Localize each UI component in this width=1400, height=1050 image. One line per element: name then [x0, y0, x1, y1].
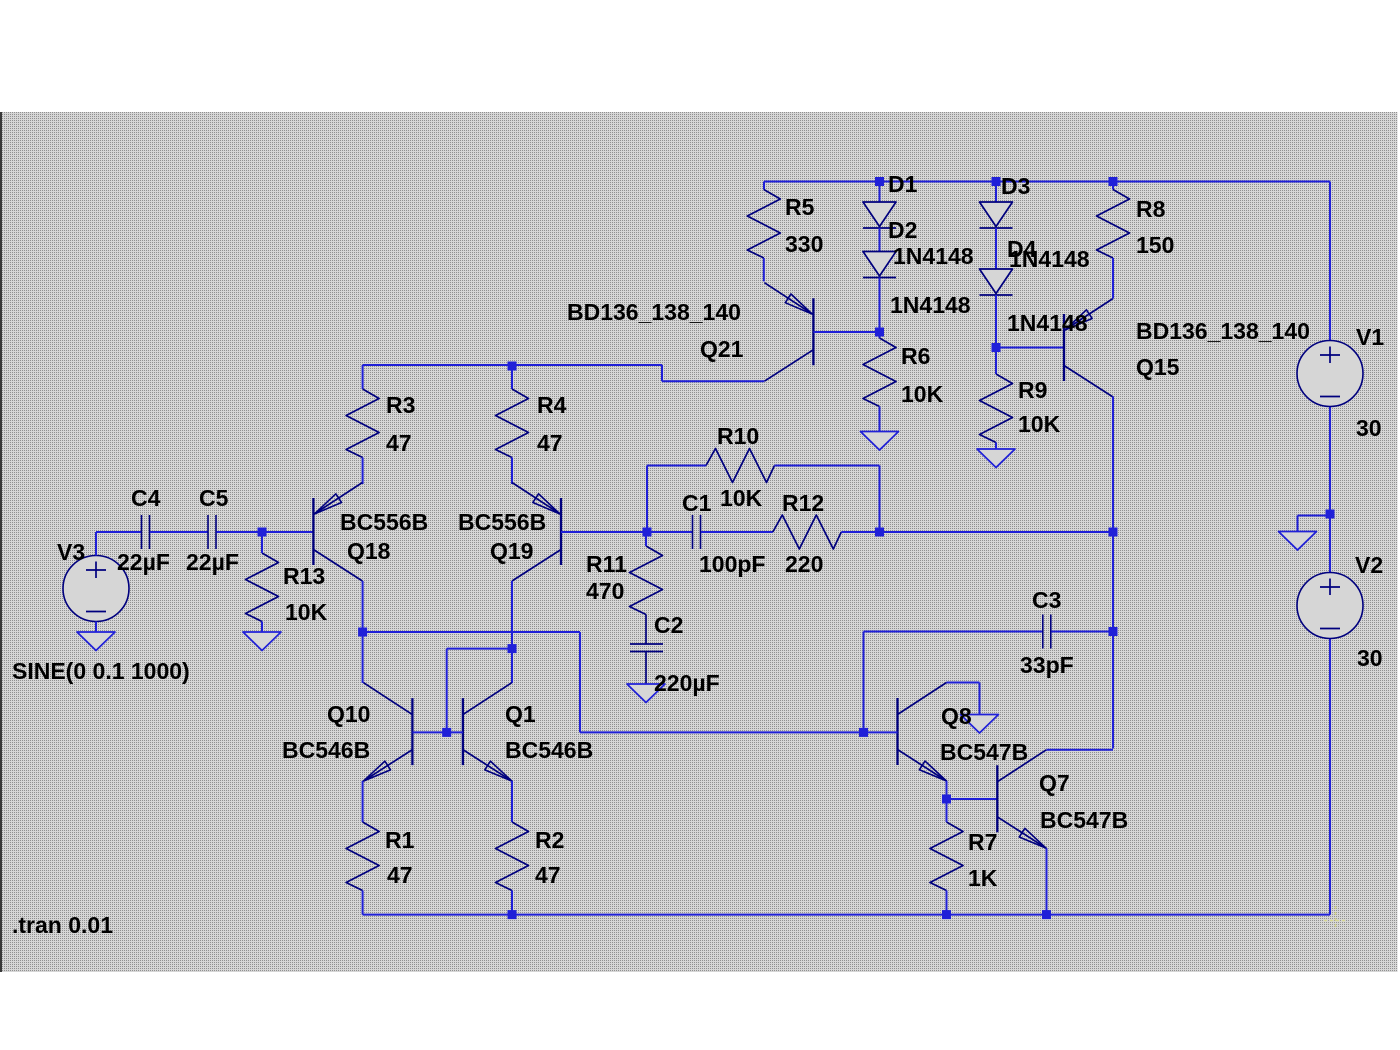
svg-text:BC556B: BC556B [458, 509, 546, 535]
wire Q8 collector 1 [947, 682, 980, 684]
svg-text:D2: D2 [888, 217, 917, 243]
diode D4 [980, 269, 1013, 295]
svg-text:1N4148: 1N4148 [1009, 246, 1090, 272]
svg-text:R8: R8 [1136, 196, 1166, 222]
svg-text:C1: C1 [682, 490, 712, 516]
node R7 bottom [942, 910, 951, 919]
wire Q7 emitter down [1046, 848, 1048, 914]
svg-text:1N4148: 1N4148 [1007, 310, 1088, 336]
capacitor C3 [1043, 615, 1051, 649]
wire Q19 collector down [511, 581, 513, 683]
wire input 3 [217, 531, 314, 533]
svg-text:1K: 1K [968, 865, 998, 891]
capacitor C1 [693, 515, 701, 549]
svg-text:R5: R5 [785, 194, 815, 220]
wire R2 bottom lead [511, 891, 513, 915]
resistor R2 [496, 822, 529, 891]
svg-text:BC547B: BC547B [1040, 807, 1128, 833]
wire V1-V2 [1329, 407, 1331, 573]
diode D1 [863, 202, 896, 228]
diode D2 [863, 252, 896, 278]
wire base tie vertical [446, 649, 448, 733]
svg-text:Q1: Q1 [505, 701, 536, 727]
node Q21 base / R6 [875, 328, 884, 337]
transistor Q8 [898, 683, 947, 782]
node input [258, 528, 267, 537]
svg-text:D1: D1 [888, 171, 918, 197]
resistor R11 [630, 546, 663, 615]
svg-text:30: 30 [1356, 415, 1382, 441]
svg-text:R9: R9 [1018, 377, 1047, 403]
svg-text:10K: 10K [285, 599, 328, 625]
wire R6 bottom lead [879, 407, 881, 432]
wire R7 top lead [946, 799, 948, 822]
svg-text:.tran 0.01: .tran 0.01 [12, 912, 113, 938]
node C3 right [1109, 627, 1118, 636]
svg-text:V1: V1 [1356, 324, 1384, 350]
wire D1 anode lead [879, 182, 881, 203]
wire R7 bottom lead [946, 891, 948, 915]
node Q7 base / R7 [942, 795, 951, 804]
wire D3 anode lead [995, 182, 997, 203]
svg-text:22µF: 22µF [117, 549, 170, 575]
node mid C1 [643, 528, 652, 537]
svg-text:BC547B: BC547B [940, 739, 1028, 765]
ground R13 [243, 632, 281, 651]
wire V2 bottom [1329, 639, 1331, 915]
transistor Q7 [997, 750, 1046, 849]
svg-text:Q15: Q15 [1136, 354, 1180, 380]
wire R8 top lead [1112, 182, 1114, 190]
svg-text:47: 47 [537, 430, 563, 456]
wire R13 bottom lead [261, 622, 263, 633]
wire Q8 base [864, 731, 898, 733]
capacitor C5 [208, 515, 216, 549]
svg-text:C2: C2 [654, 612, 683, 638]
wire node A horizontal [363, 631, 580, 633]
svg-text:47: 47 [387, 862, 413, 888]
wire Q15 base [996, 347, 1064, 349]
wire mid rail 2 [701, 531, 773, 533]
wire R9 bottom lead [995, 443, 997, 450]
svg-text:BC546B: BC546B [505, 737, 593, 763]
wire Q8 emitter down [946, 781, 948, 799]
svg-text:R2: R2 [535, 827, 564, 853]
wire to R3 R4 [363, 364, 662, 366]
node mid right [1109, 528, 1118, 537]
capacitor C4 [142, 515, 150, 549]
svg-text:R10: R10 [717, 423, 759, 449]
wire C3 right [1051, 631, 1113, 633]
ground supply midpoint [1279, 532, 1317, 551]
node Q7 emitter bottom [1042, 910, 1051, 919]
resistor R10 [706, 449, 775, 483]
wire bottom rail [363, 914, 1330, 916]
wire R10 right vertical [879, 466, 881, 533]
wire R3 bottom lead [362, 458, 364, 485]
wire mid rail 3 [841, 531, 1113, 533]
wire R10 right horizontal [775, 465, 880, 467]
voltage source V1 [1297, 341, 1363, 407]
wire Q8 collector 2 [979, 683, 981, 715]
svg-text:R13: R13 [283, 563, 325, 589]
node R4 top [508, 362, 517, 371]
wire R8 bottom lead [1112, 258, 1114, 299]
svg-text:Q7: Q7 [1039, 770, 1070, 796]
wire bases [412, 731, 463, 733]
node C3 left / Q8 base [859, 728, 868, 737]
node R2 bottom [508, 910, 517, 919]
svg-text:47: 47 [386, 430, 412, 456]
svg-text:100pF: 100pF [699, 551, 765, 577]
node top rail D1 [875, 177, 884, 186]
svg-text:SINE(0 0.1 1000): SINE(0 0.1 1000) [12, 658, 190, 684]
wire Q1 emitter down [511, 781, 513, 822]
transistor Q19 [512, 483, 561, 582]
wire top rail [764, 181, 1330, 183]
left window border [0, 112, 2, 972]
svg-text:BD136_138_140: BD136_138_140 [567, 299, 741, 325]
svg-text:R12: R12 [782, 490, 824, 516]
node top rail D3 [992, 177, 1001, 186]
capacitor C2 [630, 644, 663, 652]
wire V1 top [1329, 182, 1331, 341]
wire R1 bottom lead [362, 891, 364, 915]
resistor R12 [773, 515, 842, 549]
resistor R9 [980, 374, 1013, 443]
wire input 1 [96, 531, 141, 533]
svg-text:R7: R7 [968, 829, 997, 855]
wire C3 left vertical [863, 632, 865, 733]
ground R6 [861, 432, 899, 451]
svg-text:1N4148: 1N4148 [890, 292, 971, 318]
wire R10 left vertical [646, 466, 648, 533]
transistor Q21 [764, 283, 813, 382]
wire R5 top lead [763, 182, 765, 190]
wire D1-D2 [879, 228, 881, 252]
wire R3 top lead [362, 365, 364, 389]
wire base tie horizontal [447, 648, 512, 650]
wire mid right vertical [1112, 532, 1114, 632]
transistor Q15 [1064, 299, 1113, 398]
resistor R7 [930, 822, 963, 891]
wire D2-R6 [879, 278, 881, 339]
wire R4 bottom lead [511, 458, 513, 485]
svg-text:1N4148: 1N4148 [893, 243, 974, 269]
node Q18/Q10 collector [358, 628, 367, 637]
node top rail R8 [1109, 177, 1118, 186]
svg-text:C5: C5 [199, 485, 229, 511]
svg-text:30: 30 [1357, 645, 1383, 671]
svg-text:150: 150 [1136, 232, 1174, 258]
ground Q8 collector [961, 715, 999, 734]
svg-text:D3: D3 [1001, 173, 1030, 199]
svg-text:BC556B: BC556B [340, 509, 428, 535]
wire C2 bottom lead [645, 652, 647, 685]
svg-text:V3: V3 [57, 539, 85, 565]
wire Q19 base [561, 531, 647, 533]
wire C3 left horizontal [864, 631, 1043, 633]
resistor R1 [346, 822, 379, 891]
wire R11 top lead [645, 532, 647, 546]
wire ground stub horizontal [1298, 515, 1331, 517]
transistor Q10 [363, 683, 412, 782]
voltage source V3 [63, 556, 129, 622]
node mid R12 [875, 528, 884, 537]
svg-text:R4: R4 [537, 392, 567, 418]
diode D3 [980, 202, 1013, 228]
wire R5 bottom lead [763, 258, 765, 281]
wire Q10 emitter down [362, 781, 364, 822]
wire R10 left horizontal [647, 465, 706, 467]
cursor marker [1324, 906, 1346, 930]
svg-text:33pF: 33pF [1020, 652, 1074, 678]
resistor R5 [747, 190, 780, 259]
svg-text:330: 330 [785, 231, 823, 257]
wire Q7 collector [1047, 749, 1114, 751]
wire Q18 collector down [362, 581, 364, 632]
ground R9 [977, 449, 1015, 468]
svg-text:10K: 10K [1018, 411, 1061, 437]
node bases [442, 728, 451, 737]
svg-text:47: 47 [535, 862, 561, 888]
resistor R8 [1097, 190, 1130, 259]
wire mid rail 1 [647, 531, 692, 533]
transistor Q18 [313, 483, 362, 582]
svg-text:Q10: Q10 [327, 701, 370, 727]
wire node A vertical [579, 632, 581, 732]
wire D4-R9 [995, 295, 997, 374]
svg-text:10K: 10K [720, 485, 763, 511]
svg-text:22µF: 22µF [186, 549, 239, 575]
node Q19/Q1 collector [508, 644, 517, 653]
wire R4 top lead [511, 366, 513, 389]
node supply midpoint [1326, 510, 1335, 519]
resistor R13 [246, 553, 279, 622]
svg-text:10K: 10K [901, 381, 944, 407]
svg-text:C4: C4 [131, 485, 161, 511]
svg-text:R1: R1 [385, 827, 415, 853]
wire Q7 base [947, 798, 998, 800]
wire R13 top lead [261, 532, 263, 553]
voltage source V2 [1297, 573, 1363, 639]
wire ground stub vertical [1297, 516, 1299, 532]
svg-text:R11: R11 [586, 551, 627, 577]
ground V3 [77, 632, 115, 651]
svg-text:BD136_138_140: BD136_138_140 [1136, 318, 1310, 344]
node Q15 base / R9 [992, 343, 1001, 352]
wire input 2 [150, 531, 208, 533]
resistor R3 [346, 389, 379, 458]
wire Q21 base [813, 331, 879, 333]
svg-text:Q21: Q21 [700, 336, 744, 362]
resistor R6 [863, 338, 896, 407]
svg-text:220: 220 [785, 551, 823, 577]
svg-text:R3: R3 [386, 392, 415, 418]
wire Q10 collector up [362, 632, 364, 683]
transistor Q1 [463, 683, 512, 782]
wire C3 to Q7 [1112, 632, 1114, 749]
svg-text:R6: R6 [901, 343, 930, 369]
svg-text:Q18: Q18 [347, 538, 391, 564]
svg-text:220µF: 220µF [654, 670, 720, 696]
wire D3-D4 [995, 228, 997, 269]
wire Q21 collector [662, 380, 764, 382]
wire node A to Q8 [580, 731, 864, 733]
wire V3 bottom lead [95, 622, 97, 633]
svg-text:C3: C3 [1032, 587, 1061, 613]
svg-text:BC546B: BC546B [282, 737, 370, 763]
svg-text:470: 470 [586, 578, 624, 604]
svg-text:Q19: Q19 [490, 538, 533, 564]
wire Q15 collector [1112, 397, 1114, 533]
svg-text:V2: V2 [1355, 552, 1383, 578]
wire V3 top lead [95, 532, 97, 556]
wire step [661, 365, 663, 381]
resistor R4 [496, 389, 529, 458]
wire R11 bottom lead [645, 615, 647, 645]
ground C2 [627, 684, 665, 703]
svg-text:Q8: Q8 [941, 703, 972, 729]
